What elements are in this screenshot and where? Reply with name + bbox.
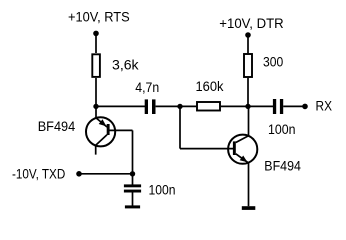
wire node C to Q2 collector bbox=[248, 106, 250, 135]
resistor R2 160k bbox=[197, 102, 220, 111]
wire Q1 emitter to node A bbox=[95, 106, 97, 118]
ground GND2 bbox=[242, 206, 256, 210]
wire Q1 base to node D bbox=[109, 130, 132, 174]
node C junction bbox=[245, 104, 250, 109]
wire Q2 emitter to ground bbox=[248, 162, 250, 206]
wire node B to Q2 base bbox=[180, 106, 233, 148]
wire T1 to R1 bbox=[95, 34, 97, 53]
node B junction bbox=[177, 104, 182, 109]
wire node A to C1 bbox=[96, 105, 145, 107]
wire node D to C3 bbox=[132, 174, 134, 185]
svg-text:100n: 100n bbox=[268, 121, 296, 137]
svg-text:BF494: BF494 bbox=[38, 118, 76, 134]
terminal -10V TXD bbox=[76, 171, 82, 177]
wire C3 to ground bbox=[132, 192, 134, 205]
svg-text:+10V, DTR: +10V, DTR bbox=[219, 15, 283, 31]
wire R1 to node A bbox=[95, 78, 97, 107]
svg-text:RX: RX bbox=[316, 98, 333, 114]
svg-text:-10V, TXD: -10V, TXD bbox=[12, 165, 65, 181]
svg-text:100n: 100n bbox=[149, 182, 176, 198]
svg-text:3,6k: 3,6k bbox=[112, 56, 140, 72]
terminal RX bbox=[302, 104, 308, 110]
svg-text:4,7n: 4,7n bbox=[135, 79, 159, 95]
wire TXD to node D bbox=[79, 173, 133, 175]
wire T2 to R3 bbox=[247, 36, 249, 53]
node D junction bbox=[130, 171, 135, 176]
wire C1 to node B bbox=[156, 105, 197, 107]
svg-text:160k: 160k bbox=[196, 78, 225, 94]
capacitor C2 100n bbox=[273, 99, 283, 114]
wire R2 to node C bbox=[221, 105, 273, 107]
ground GND1 bbox=[125, 205, 140, 208]
wire R3 to node C bbox=[247, 78, 249, 106]
resistor R3 300 bbox=[244, 54, 252, 77]
resistor R1 bbox=[92, 54, 100, 77]
svg-text:+10V, RTS: +10V, RTS bbox=[68, 9, 130, 25]
svg-text:BF494: BF494 bbox=[264, 157, 301, 173]
transistor Q2 BF494 bbox=[228, 135, 257, 164]
terminal +10V DTR bbox=[245, 32, 251, 38]
wire C2 to RX bbox=[283, 105, 303, 107]
terminal +10V RTS bbox=[93, 31, 99, 37]
node A junction bbox=[93, 104, 98, 109]
capacitor C1 4,7n bbox=[145, 99, 156, 114]
capacitor C3 100n bbox=[124, 184, 141, 192]
svg-text:300: 300 bbox=[263, 53, 283, 69]
transistor Q1 BF494 bbox=[86, 117, 115, 154]
